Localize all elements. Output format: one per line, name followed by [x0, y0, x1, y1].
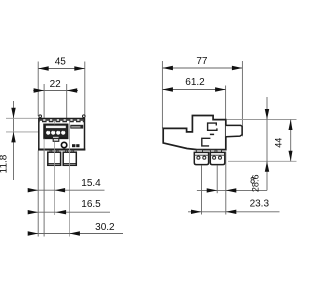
indicator square 1: [72, 144, 75, 147]
svg-text:22: 22: [50, 79, 62, 90]
svg-text:30.2: 30.2: [95, 222, 115, 233]
vertical dim line V2 (44): [290, 120, 292, 162]
terminal block: [44, 124, 68, 138]
extension line x=44.1 over body: [43, 139, 45, 151]
dimension 22 extension line right: [66, 84, 68, 124]
dimension 45 extension line left: [37, 62, 39, 117]
center line left foot lower: [53, 142, 55, 215]
dimension 30.2 arrow right: [69, 231, 80, 235]
terminal screw 3: [56, 130, 61, 135]
dimension 23.3 line (row B): [188, 211, 280, 213]
dimension 44 arrow up: [289, 120, 293, 131]
svg-text:23.3: 23.3: [250, 199, 270, 210]
bottom extension line right view: [228, 160, 297, 162]
label dark rectangle: [70, 125, 83, 129]
terminal screw slots: [48, 130, 64, 131]
dimension 22 arrow right (outside, pointing left): [67, 88, 78, 92]
dimension 15.4 arrow right: [55, 188, 66, 192]
dimension 22 extension line left: [43, 84, 45, 237]
dimension 15.4 line: [28, 189, 105, 191]
svg-text:77: 77: [196, 56, 208, 67]
front right foot bottom line: [63, 163, 76, 165]
dimension 23.3 arrow right (pointing left): [226, 210, 237, 214]
dimension 77 line: [162, 67, 242, 69]
top-right corner clip circle: [83, 115, 86, 118]
terminal block bottom slot: [53, 137, 59, 138]
dimension 16.5 arrow left: [28, 210, 39, 214]
terminal screw 1: [46, 130, 51, 135]
dimension 61.2 extension line right: [225, 86, 227, 120]
dimension 45 line: [38, 68, 85, 70]
svg-text:45: 45: [55, 56, 67, 67]
dimension 45 arrow right: [74, 66, 85, 70]
dimension 44 arrow down: [289, 151, 293, 162]
dimension 11.8 arrow top (pointing down): [11, 108, 15, 119]
terminal screw 4: [61, 130, 66, 135]
side left foot: [194, 152, 208, 164]
terminal block top slot: [46, 126, 66, 128]
front view body outline: [39, 119, 85, 150]
dimension 61.2 line: [162, 89, 225, 91]
side left foot inner line: [194, 154, 208, 156]
svg-text:44: 44: [273, 138, 283, 148]
front right foot: [63, 152, 76, 165]
side foot tabs: [196, 150, 221, 153]
terminal screw 2: [51, 130, 56, 135]
dimension 30.2 arrow left: [28, 231, 39, 235]
center line left foot upper: [53, 121, 55, 124]
vertical dim line V1: [266, 97, 268, 190]
dimension 61.2 arrow right: [215, 87, 226, 91]
extension line right foot center: [216, 166, 218, 194]
label inner line: [71, 126, 80, 128]
dimension 8 arrow left (pointing right): [207, 188, 218, 192]
left edge extension line downward: [37, 151, 39, 237]
dimension 8 line (row A): [197, 189, 267, 191]
nose tab on right: [226, 125, 242, 136]
svg-text:61.2: 61.2: [185, 77, 205, 88]
dimension 45 extension line right: [84, 62, 86, 117]
front left foot bottom line: [48, 163, 61, 165]
dimension 77 extension line right: [241, 61, 243, 136]
indicator square 2: [76, 144, 79, 147]
top-left corner clip circle: [39, 115, 42, 118]
side foot pin ticks: [198, 155, 220, 156]
front left foot: [48, 152, 61, 165]
vent band dash row 1: [39, 119, 85, 121]
V1 arrow down (top): [265, 109, 269, 120]
side foot pin circles: [197, 156, 222, 159]
dimension 61.2 arrow left: [162, 87, 173, 91]
svg-text:15.4: 15.4: [81, 178, 101, 189]
side right foot: [210, 152, 225, 164]
svg-text:11.8: 11.8: [0, 154, 9, 173]
dimension 77 arrow right: [232, 66, 243, 70]
dimension 23.3 arrow left (pointing right): [191, 210, 202, 214]
vent band dash row 2: [39, 121, 85, 123]
dimension 77 arrow left: [162, 66, 173, 70]
side view body outline: [163, 116, 226, 150]
dash below C: [210, 133, 214, 135]
dimension 16.5 line: [28, 211, 110, 213]
svg-text:28.6: 28.6: [251, 175, 261, 193]
dimension 22 line: [33, 90, 78, 92]
V1 arrow up (bottom): [265, 161, 269, 172]
dimension 16.5 arrow right: [56, 210, 67, 214]
extension line left foot center: [201, 166, 203, 215]
C-shaped cutout detail: [208, 123, 217, 130]
hook below terminal block: [53, 138, 59, 141]
front view bottom edge thick: [38, 149, 85, 151]
foot tabs front view: [50, 150, 74, 152]
dimension 11.8 bottom extension line: [6, 131, 44, 133]
top extension line right view: [227, 119, 297, 121]
dimension 30.2 line: [28, 233, 123, 235]
dimension 8 arrow right (pointing left): [226, 188, 237, 192]
bracket cutout detail: [202, 138, 211, 146]
dimension 45 arrow left: [38, 66, 49, 70]
svg-text:16.5: 16.5: [81, 199, 101, 210]
dimension 11.8 arrow bottom (pointing up): [11, 132, 15, 143]
dimension 11.8 vertical line: [13, 101, 15, 180]
dimension 11.8 top extension line: [6, 117, 39, 119]
button circle: [61, 142, 66, 147]
dimension 77 extension line left: [161, 61, 163, 128]
extension line body right edge: [225, 152, 227, 215]
side right foot inner line: [210, 154, 225, 156]
center line right foot: [68, 121, 70, 237]
dimension 15.4 arrow left: [28, 188, 39, 192]
dimension 22 arrow left (outside, pointing right): [34, 88, 45, 92]
